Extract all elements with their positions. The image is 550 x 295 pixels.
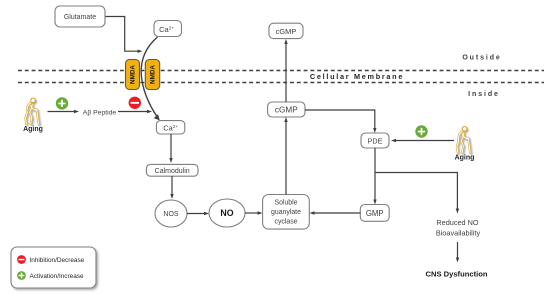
wire cGMP bottom to PDE — [305, 110, 375, 129]
membrane outer dashed line — [18, 70, 544, 72]
legend badge inhibition — [17, 255, 26, 264]
svg-text:NOS: NOS — [163, 211, 179, 218]
wire Ca2+ to Calmodulin — [170, 134, 172, 159]
wire Aging right to PDE — [396, 140, 455, 142]
badge activation green plus right — [415, 125, 427, 137]
svg-text:Reduced NO: Reduced NO — [436, 218, 479, 227]
legend badge activation — [17, 271, 26, 280]
wire Aging to AB peptide — [48, 111, 75, 113]
box cGMP bottom — [268, 102, 305, 117]
svg-text:Activation/Increase: Activation/Increase — [30, 273, 84, 280]
svg-text:Aβ Peptide: Aβ Peptide — [83, 109, 117, 116]
wire Calmodulin to NOS — [171, 176, 173, 194]
badge inhibition red minus — [129, 97, 141, 109]
svg-text:Glutamate: Glutamate — [64, 14, 96, 21]
svg-text:Cellular Membrane: Cellular Membrane — [310, 72, 404, 81]
svg-text:CNS Dysfunction: CNS Dysfunction — [425, 270, 487, 279]
ellipse NO — [209, 199, 245, 227]
box Ca2+ bottom — [156, 121, 184, 134]
wire AB peptide to Ca influx — [118, 111, 148, 113]
svg-text:GMP: GMP — [366, 209, 384, 218]
svg-text:Aging: Aging — [23, 126, 43, 133]
wire branch to Reduced NO — [375, 173, 457, 210]
svg-text:Calmodulin: Calmodulin — [155, 168, 190, 175]
box soluble guanylate cyclase — [263, 195, 310, 230]
svg-text:Soluble: Soluble — [275, 199, 298, 206]
membrane inner dashed line — [18, 82, 544, 84]
wire NOS to NO — [187, 213, 205, 215]
wire PDE to GMP — [374, 148, 376, 200]
svg-text:PDE: PDE — [368, 137, 383, 146]
legend box — [11, 247, 96, 288]
NMDA channel left — [126, 60, 140, 90]
wire cGMP bottom to cGMP top — [285, 44, 287, 103]
wire Glutamate to NMDA — [105, 17, 138, 52]
svg-text:cGMP: cGMP — [275, 106, 298, 115]
svg-text:Outside: Outside — [462, 55, 501, 62]
svg-text:NO: NO — [220, 208, 233, 218]
wire Reduced NO to CNS Dysfunction — [457, 242, 459, 258]
badge activation green plus left — [56, 97, 68, 109]
svg-text:NMDA: NMDA — [150, 65, 157, 84]
svg-text:cyclase: cyclase — [275, 218, 298, 225]
person Aging left — [25, 98, 38, 124]
ellipse NOS — [155, 200, 187, 227]
wire soluble guanylate cyclase to cGMP — [285, 122, 287, 195]
svg-text:NMDA: NMDA — [130, 65, 137, 84]
svg-text:guanylate: guanylate — [271, 209, 301, 216]
box Calmodulin — [146, 164, 198, 176]
box PDE — [361, 133, 389, 148]
wire NO to soluble guanylate cyclase — [245, 212, 258, 214]
box cGMP top — [269, 23, 303, 38]
person Aging right — [457, 127, 470, 153]
box Ca2+ top — [154, 21, 182, 37]
box GMP — [360, 205, 389, 222]
wire GMP to soluble guanylate cyclase — [314, 212, 360, 214]
NMDA channel right — [145, 60, 159, 90]
box Glutamate — [55, 6, 105, 27]
svg-text:cGMP: cGMP — [276, 27, 297, 36]
svg-text:Bioavailability: Bioavailability — [436, 229, 481, 238]
svg-text:Aging: Aging — [455, 155, 475, 162]
svg-text:Inhibition/Decrease: Inhibition/Decrease — [30, 257, 85, 264]
wire Ca2+ influx curve — [141, 37, 157, 116]
svg-text:Inside: Inside — [468, 91, 500, 98]
